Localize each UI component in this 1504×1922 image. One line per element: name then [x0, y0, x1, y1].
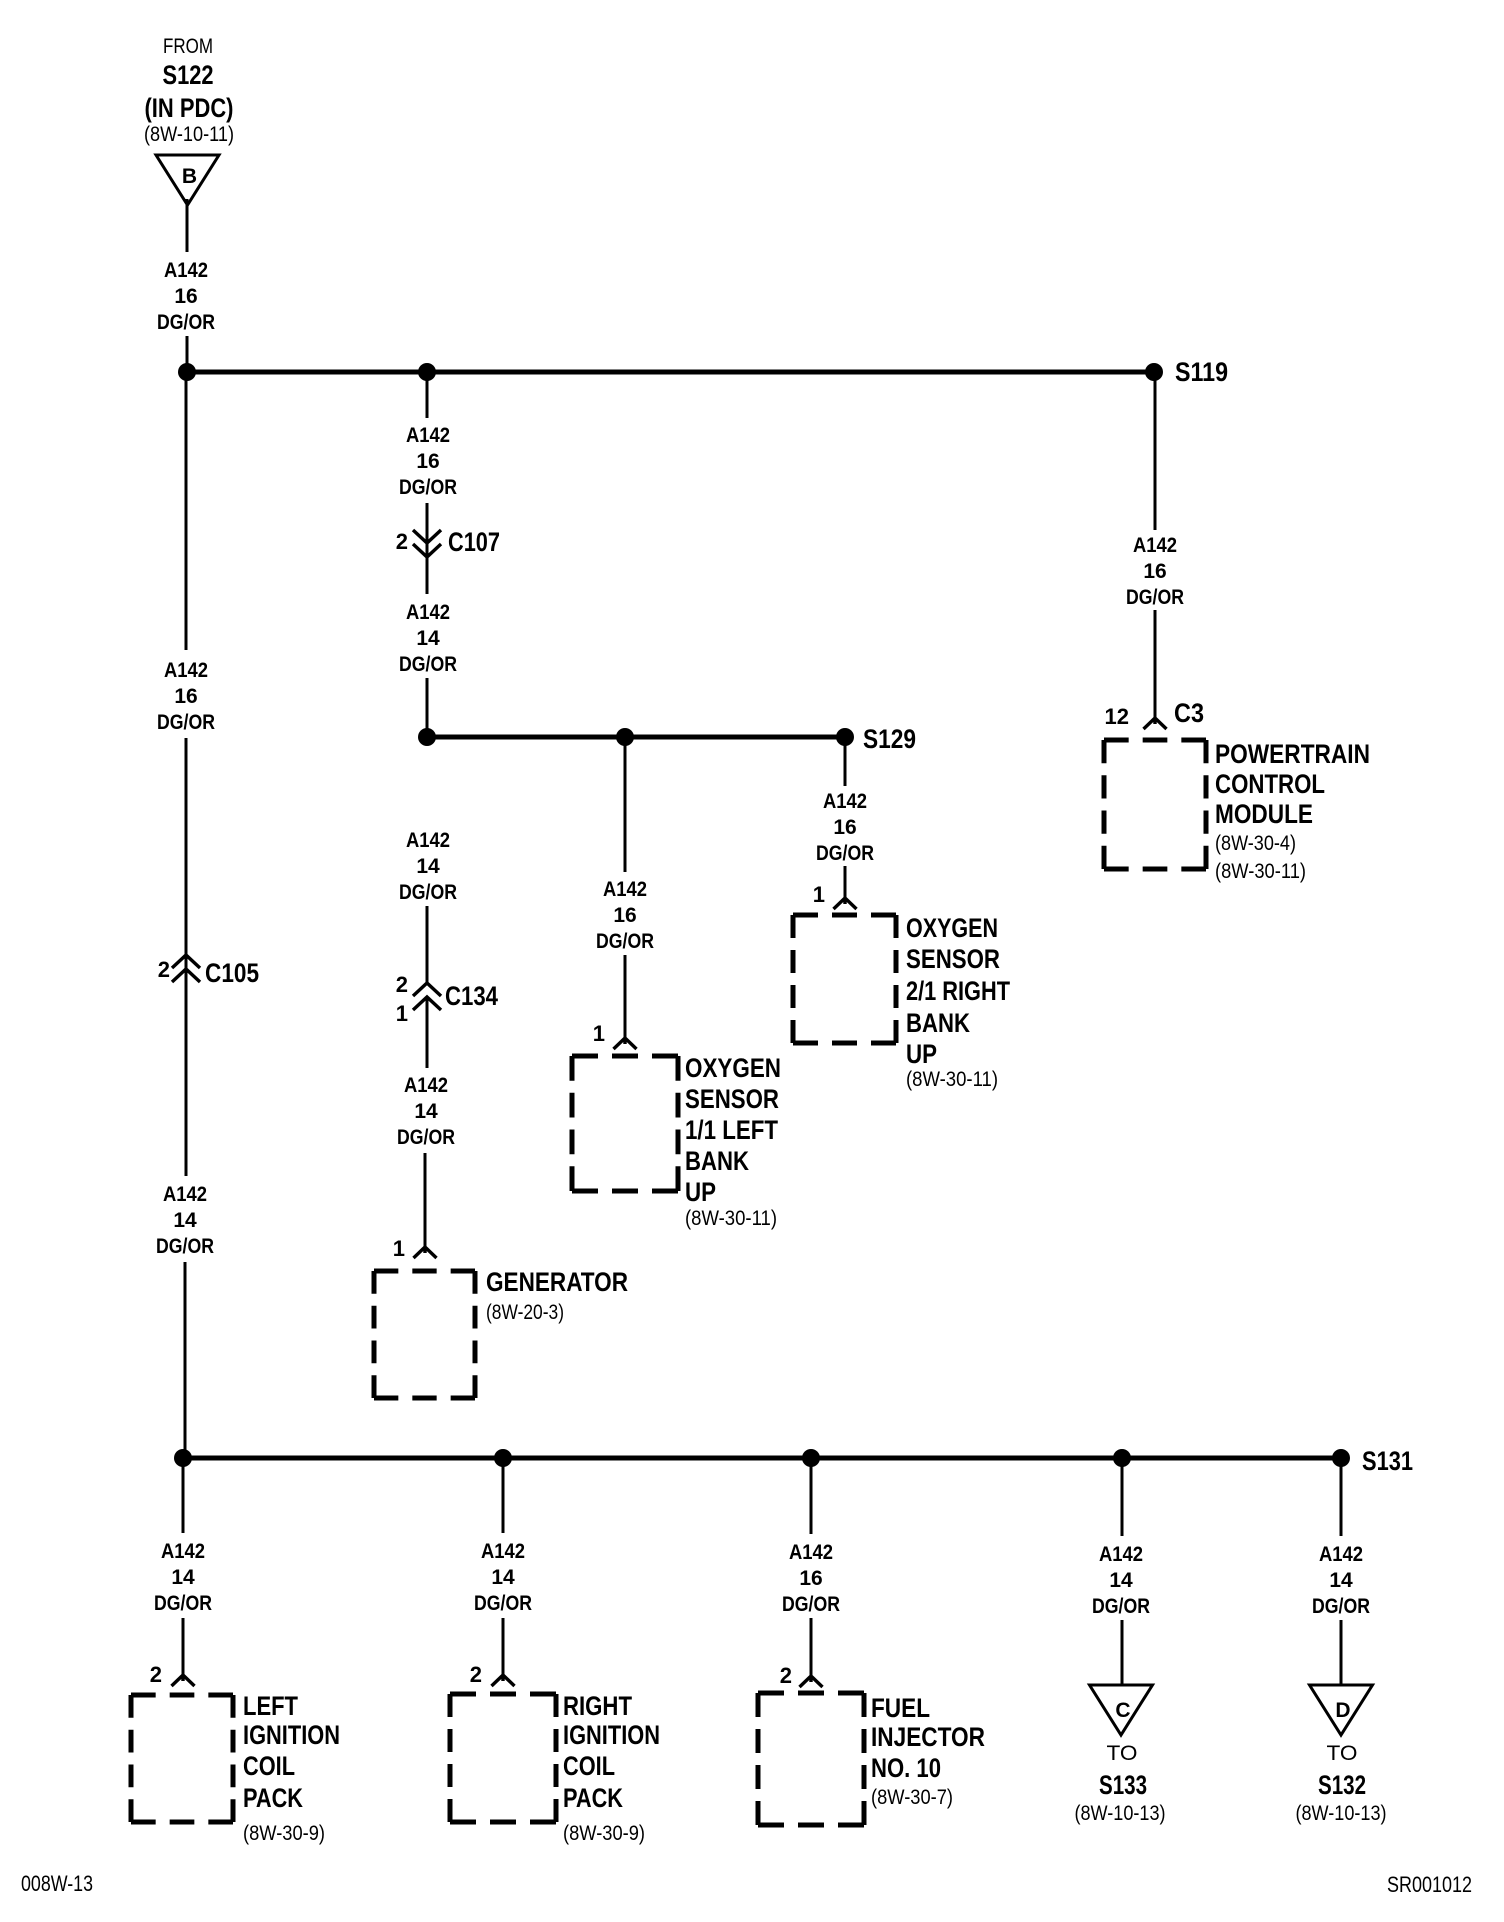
- off-page connector B (from S122): [156, 155, 219, 205]
- svg-text:IGNITION: IGNITION: [243, 1720, 340, 1750]
- destination label TO S132 (8W-10-13): [1296, 1742, 1387, 1825]
- node junction at S133 branch: [1113, 1449, 1131, 1467]
- svg-text:TO: TO: [1107, 1742, 1138, 1765]
- svg-text:TO: TO: [1327, 1742, 1358, 1765]
- svg-text:CONTROL: CONTROL: [1215, 769, 1325, 799]
- svg-text:A142: A142: [823, 790, 867, 813]
- svg-text:(8W-30-9): (8W-30-9): [563, 1822, 645, 1845]
- svg-text:INJECTOR: INJECTOR: [871, 1722, 985, 1752]
- oxygen sensor 2/1 right bank up dashed box: [793, 915, 896, 1043]
- connector C107: [396, 527, 500, 557]
- svg-text:16: 16: [416, 450, 439, 473]
- svg-text:2: 2: [150, 1662, 162, 1687]
- wire: [1154, 610, 1157, 718]
- svg-text:S131: S131: [1362, 1446, 1413, 1476]
- svg-text:DG/OR: DG/OR: [816, 842, 874, 865]
- generator labels: [486, 1267, 628, 1324]
- oxygen sensor 1/1 left bank up dashed box: [572, 1056, 678, 1191]
- wire: [186, 199, 189, 252]
- off-page connector D (to S132): [1310, 1685, 1373, 1735]
- svg-text:16: 16: [833, 816, 856, 839]
- svg-text:C107: C107: [448, 527, 500, 557]
- wire label A142 14 DG/OR (to S132): [1312, 1543, 1370, 1618]
- svg-text:SENSOR: SENSOR: [685, 1084, 779, 1114]
- svg-text:DG/OR: DG/OR: [474, 1592, 532, 1615]
- wire: [502, 1458, 505, 1533]
- svg-text:A142: A142: [163, 1183, 207, 1206]
- svg-text:16: 16: [174, 285, 197, 308]
- wire: [810, 1458, 813, 1534]
- svg-text:DG/OR: DG/OR: [399, 881, 457, 904]
- svg-text:1: 1: [393, 1236, 405, 1261]
- svg-text:DG/OR: DG/OR: [1092, 1595, 1150, 1618]
- wire: [1154, 372, 1157, 530]
- svg-text:(8W-10-13): (8W-10-13): [1296, 1802, 1387, 1825]
- svg-text:2: 2: [396, 972, 408, 997]
- wire: [185, 372, 188, 650]
- svg-text:OXYGEN: OXYGEN: [685, 1053, 781, 1083]
- node junction at right ignition coil branch: [494, 1449, 512, 1467]
- wire label A142 14 DG/OR (above generator): [397, 1074, 455, 1149]
- svg-text:LEFT: LEFT: [243, 1691, 298, 1721]
- wire: [624, 955, 627, 1038]
- wire: [1340, 1458, 1343, 1536]
- wire label A142 16 DG/OR (fuel injector): [782, 1541, 840, 1616]
- svg-text:S119: S119: [1175, 357, 1228, 387]
- wire label A142 14 DG/OR (below C107): [399, 601, 457, 676]
- svg-text:A142: A142: [1133, 534, 1177, 557]
- node splice S131: [1332, 1449, 1350, 1467]
- powertrain control module labels: [1215, 739, 1370, 883]
- wire: [1340, 1620, 1343, 1685]
- svg-text:16: 16: [613, 904, 636, 927]
- svg-text:2: 2: [396, 529, 408, 554]
- svg-text:1: 1: [813, 882, 825, 907]
- wire: [426, 997, 429, 1068]
- svg-text:B: B: [182, 165, 197, 188]
- node junction at oxygen sensor 1/1 branch: [616, 728, 634, 746]
- oxygen sensor 2/1 labels: [906, 913, 1010, 1091]
- svg-text:S122: S122: [163, 60, 214, 90]
- svg-text:A142: A142: [1319, 1543, 1363, 1566]
- svg-text:(8W-10-13): (8W-10-13): [1075, 1802, 1166, 1825]
- svg-text:DG/OR: DG/OR: [596, 930, 654, 953]
- svg-text:DG/OR: DG/OR: [397, 1126, 455, 1149]
- wire bus to splice S131: [183, 1456, 1341, 1461]
- wire label A142 16 DG/OR (left mid): [157, 659, 215, 734]
- svg-text:(IN PDC): (IN PDC): [145, 93, 234, 123]
- wire bus to splice S129: [427, 735, 845, 740]
- wire label A142 14 DG/OR (left coil): [154, 1540, 212, 1615]
- svg-text:A142: A142: [164, 259, 208, 282]
- svg-text:A142: A142: [603, 878, 647, 901]
- destination label TO S133 (8W-10-13): [1075, 1742, 1166, 1825]
- svg-text:S133: S133: [1099, 1770, 1147, 1800]
- svg-text:DG/OR: DG/OR: [157, 711, 215, 734]
- svg-text:A142: A142: [161, 1540, 205, 1563]
- oxygen sensor 2/1 pin 1 connector: [813, 882, 857, 909]
- svg-text:1: 1: [396, 1001, 408, 1026]
- svg-text:14: 14: [416, 855, 440, 878]
- wire label A142 16 DG/OR (above C107): [399, 424, 457, 499]
- svg-text:14: 14: [414, 1100, 438, 1123]
- svg-text:A142: A142: [406, 829, 450, 852]
- wire: [424, 1153, 427, 1247]
- wire label A142 16 DG/OR (above O2 2/1): [816, 790, 874, 865]
- wire: [426, 678, 429, 737]
- wire label A142 16 DG/OR (above PCM): [1126, 534, 1184, 609]
- svg-text:2/1 RIGHT: 2/1 RIGHT: [906, 976, 1010, 1006]
- wire bus to splice S119: [187, 370, 1154, 375]
- left ignition coil pack dashed box: [131, 1695, 233, 1822]
- svg-text:16: 16: [1143, 560, 1166, 583]
- svg-text:(8W-30-11): (8W-30-11): [1215, 860, 1306, 883]
- svg-text:D: D: [1335, 1699, 1350, 1722]
- svg-text:A142: A142: [1099, 1543, 1143, 1566]
- left ignition coil pack labels: [243, 1691, 340, 1845]
- svg-text:C3: C3: [1174, 698, 1204, 728]
- wire: [184, 1262, 187, 1458]
- svg-text:2: 2: [158, 957, 170, 982]
- svg-text:DG/OR: DG/OR: [157, 311, 215, 334]
- generator G dashed box: [374, 1271, 475, 1398]
- svg-text:BANK: BANK: [685, 1146, 749, 1176]
- svg-text:DG/OR: DG/OR: [156, 1235, 214, 1258]
- fuel injector pin 2 connector: [780, 1663, 823, 1688]
- wire: [182, 1618, 185, 1675]
- svg-text:UP: UP: [685, 1177, 716, 1207]
- node splice S119: [1145, 363, 1163, 381]
- svg-text:PACK: PACK: [243, 1783, 303, 1813]
- svg-text:A142: A142: [406, 424, 450, 447]
- svg-text:IGNITION: IGNITION: [563, 1720, 660, 1750]
- svg-text:14: 14: [171, 1566, 195, 1589]
- svg-text:A142: A142: [789, 1541, 833, 1564]
- svg-text:NO. 10: NO. 10: [871, 1753, 941, 1783]
- svg-text:(8W-30-11): (8W-30-11): [906, 1068, 998, 1091]
- right ignition coil pack labels: [563, 1691, 660, 1845]
- wire: [844, 866, 847, 898]
- svg-text:A142: A142: [406, 601, 450, 624]
- svg-text:14: 14: [1329, 1569, 1353, 1592]
- svg-text:14: 14: [416, 627, 440, 650]
- wire: [426, 503, 429, 594]
- svg-text:14: 14: [1109, 1569, 1133, 1592]
- svg-text:008W-13: 008W-13: [21, 1871, 93, 1896]
- generator pin 1 connector: [393, 1236, 437, 1261]
- wire label A142 14 DG/OR (right coil): [474, 1540, 532, 1615]
- svg-text:C: C: [1115, 1699, 1130, 1722]
- wire: [426, 372, 429, 418]
- node splice S129: [836, 728, 854, 746]
- svg-text:DG/OR: DG/OR: [154, 1592, 212, 1615]
- svg-text:A142: A142: [404, 1074, 448, 1097]
- wire: [1121, 1620, 1124, 1685]
- svg-text:MODULE: MODULE: [1215, 799, 1313, 829]
- wire label A142 14 DG/OR (left low): [156, 1183, 214, 1258]
- wire: [810, 1618, 813, 1676]
- powertrain control module dashed box: [1104, 740, 1206, 869]
- svg-text:(8W-10-11): (8W-10-11): [144, 123, 234, 146]
- right ignition coil pack dashed box: [450, 1694, 556, 1822]
- svg-text:SR001012: SR001012: [1387, 1872, 1472, 1897]
- node S122 source label: FROM S122 (IN PDC) (8W-10-11): [144, 35, 234, 146]
- svg-text:DG/OR: DG/OR: [1126, 586, 1184, 609]
- wire: [426, 906, 429, 985]
- svg-text:12: 12: [1105, 704, 1129, 729]
- svg-text:RIGHT: RIGHT: [563, 1691, 632, 1721]
- wire: [186, 336, 189, 372]
- svg-text:FUEL: FUEL: [871, 1693, 930, 1723]
- svg-text:2: 2: [780, 1663, 792, 1688]
- svg-text:S129: S129: [863, 724, 916, 754]
- fuel injector labels: [871, 1693, 985, 1809]
- node junction at left branch: [178, 363, 196, 381]
- left ignition coil pack pin 2 connector: [150, 1662, 195, 1687]
- svg-text:DG/OR: DG/OR: [782, 1593, 840, 1616]
- right ignition coil pack pin 2 connector: [470, 1662, 515, 1687]
- svg-text:16: 16: [799, 1567, 822, 1590]
- svg-text:C134: C134: [445, 981, 498, 1011]
- wire label A142 16 DG/OR (above O2 1/1): [596, 878, 654, 953]
- svg-text:A142: A142: [164, 659, 208, 682]
- svg-text:PACK: PACK: [563, 1783, 623, 1813]
- svg-text:BANK: BANK: [906, 1008, 970, 1038]
- oxygen sensor 1/1 labels: [685, 1053, 781, 1230]
- svg-text:COIL: COIL: [243, 1751, 295, 1781]
- svg-text:POWERTRAIN: POWERTRAIN: [1215, 739, 1370, 769]
- connector C105: [158, 955, 259, 988]
- wire label A142 14 DG/OR (above C134): [399, 829, 457, 904]
- svg-text:1/1 LEFT: 1/1 LEFT: [685, 1115, 778, 1145]
- svg-text:14: 14: [491, 1566, 515, 1589]
- wire: [624, 737, 627, 872]
- wire: [1121, 1458, 1124, 1536]
- svg-text:(8W-20-3): (8W-20-3): [486, 1301, 564, 1324]
- wire: [502, 1618, 505, 1675]
- node junction at C134 branch: [418, 728, 436, 746]
- svg-text:FROM: FROM: [163, 35, 213, 58]
- wire: [182, 1458, 185, 1533]
- svg-text:(8W-30-4): (8W-30-4): [1215, 832, 1296, 855]
- svg-text:16: 16: [174, 685, 197, 708]
- svg-text:GENERATOR: GENERATOR: [486, 1267, 628, 1297]
- node junction at fuel injector branch: [802, 1449, 820, 1467]
- svg-text:(8W-30-7): (8W-30-7): [871, 1786, 953, 1809]
- svg-text:14: 14: [173, 1209, 197, 1232]
- svg-text:C105: C105: [205, 958, 259, 988]
- svg-text:2: 2: [470, 1662, 482, 1687]
- wire: [185, 738, 188, 1176]
- svg-text:(8W-30-11): (8W-30-11): [685, 1207, 777, 1230]
- svg-text:A142: A142: [481, 1540, 525, 1563]
- oxygen sensor 1/1 pin 1 connector: [593, 1021, 637, 1049]
- svg-text:UP: UP: [906, 1039, 937, 1069]
- node junction at left ignition coil branch: [174, 1449, 192, 1467]
- node junction at C107 branch: [418, 363, 436, 381]
- svg-text:OXYGEN: OXYGEN: [906, 913, 998, 943]
- wire: [844, 737, 847, 786]
- svg-text:DG/OR: DG/OR: [1312, 1595, 1370, 1618]
- svg-text:1: 1: [593, 1021, 605, 1046]
- svg-text:SENSOR: SENSOR: [906, 944, 1000, 974]
- svg-text:(8W-30-9): (8W-30-9): [243, 1822, 325, 1845]
- connector C134: [396, 972, 498, 1026]
- wire label A142 16 DG/OR (top left): [157, 259, 215, 334]
- svg-text:COIL: COIL: [563, 1751, 615, 1781]
- fuel injector no. 10 dashed box: [758, 1693, 864, 1825]
- svg-text:S132: S132: [1318, 1770, 1366, 1800]
- svg-text:DG/OR: DG/OR: [399, 653, 457, 676]
- wire label A142 14 DG/OR (to S133): [1092, 1543, 1150, 1618]
- off-page connector C (to S133): [1090, 1685, 1153, 1735]
- svg-text:DG/OR: DG/OR: [399, 476, 457, 499]
- PCM connector C3 pin 12: [1105, 698, 1204, 729]
